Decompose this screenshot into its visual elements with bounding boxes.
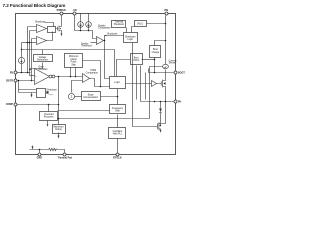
svg-text:Boot: Boot: [153, 48, 158, 51]
wire boot UVLO rail A: [136, 66, 138, 100]
svg-text:Logic: Logic: [127, 39, 133, 41]
svg-text:Shutdown: Shutdown: [46, 88, 57, 91]
wire boot UVLO right to boot riser: [142, 59, 155, 61]
svg-text:Skip: Skip: [71, 65, 76, 67]
svg-text:COMP: COMP: [6, 103, 14, 106]
wire UVLO to VIN rail: [147, 23, 166, 25]
ground arrow below Q4: [160, 130, 162, 133]
comparator U2 (VSENSE OV): [37, 37, 47, 45]
voltage reference box: [34, 55, 53, 62]
driver triangle U6: [152, 81, 157, 87]
wire logic output to driver: [126, 83, 152, 85]
logic box: [110, 77, 126, 89]
svg-text:Oscillator: Oscillator: [113, 130, 123, 133]
diode D1: [159, 102, 162, 122]
svg-text:7.2 Functional Block Diagram: 7.2 Functional Block Diagram: [3, 3, 66, 8]
wire min clamp stubs down: [71, 68, 76, 77]
wire PWRGD drain riser: [61, 15, 63, 26]
current source Ip: [78, 22, 84, 28]
boot charge box: [150, 46, 161, 58]
wire FB to comparators junctions: [28, 72, 31, 74]
pin EN: [73, 12, 76, 15]
wire EN pin riser: [74, 15, 76, 31]
svg-text:BOOT: BOOT: [178, 72, 185, 75]
wire VR bottom to error amp plus: [30, 63, 43, 69]
svg-text:Minimum: Minimum: [69, 56, 79, 58]
current source Ih: [86, 22, 92, 28]
pin PH: [174, 100, 177, 103]
svg-text:Sense: Sense: [169, 63, 176, 65]
svg-text:SS/TR: SS/TR: [6, 79, 13, 82]
ground arrow below Q1: [61, 33, 63, 36]
wire shutdown net to logic: [105, 36, 124, 79]
pin FB: [14, 71, 17, 74]
maximum clamp box: [53, 125, 66, 134]
svg-text:RT/CLK: RT/CLK: [113, 157, 122, 160]
svg-text:Shutdown: Shutdown: [35, 21, 46, 24]
wire current source tops to VIN rail: [81, 14, 89, 22]
svg-text:With PLL: With PLL: [113, 133, 123, 136]
junction dots right: [100, 59, 167, 103]
wire boot charge riser: [154, 58, 156, 73]
pin RT/CLK: [116, 153, 119, 156]
svg-text:Shift: Shift: [115, 110, 120, 113]
svg-text:Σ: Σ: [71, 94, 73, 98]
enable comparator U4: [97, 37, 104, 45]
transistor Q2 comp clamp: [46, 91, 48, 93]
wire SS bus to error amp minus input: [17, 80, 35, 82]
wire GND net: [30, 146, 65, 153]
svg-text:EN: EN: [73, 9, 77, 12]
svg-text:Clamp: Clamp: [55, 129, 62, 131]
wire shutdown stub into pwrgd logic box: [45, 23, 54, 27]
transistor Q4 PH pulldown: [158, 122, 161, 131]
wire BOOT net: [149, 69, 174, 73]
wire U2 output to pwrgd logic: [47, 32, 53, 41]
svg-text:Overload: Overload: [44, 113, 54, 116]
svg-text:Boot: Boot: [134, 56, 139, 59]
svg-text:Logic: Logic: [114, 82, 120, 84]
comparator U1 (VSENSE UV): [37, 25, 47, 33]
pin VIN: [165, 12, 168, 15]
svg-text:Charge: Charge: [152, 51, 160, 54]
wire oscillator to RT/CLK pin: [117, 139, 119, 153]
wire U2 lower input from SS riser: [22, 42, 37, 44]
PWM comparator U5: [83, 74, 90, 83]
transistor Q1 PWRGD open drain: [56, 26, 62, 34]
wire comparator input rail x27.3: [28, 27, 37, 73]
wire comp riser to maximum clamp branch: [59, 67, 163, 119]
svg-text:VIN: VIN: [164, 9, 168, 12]
UVLO box: [135, 21, 147, 27]
arrowhead shutdown wire: [104, 35, 106, 36]
minimum clamp pulse skip box: [65, 54, 83, 68]
wire FB bus: [17, 72, 28, 74]
svg-text:Comparator: Comparator: [86, 72, 99, 75]
pin GND: [38, 153, 41, 156]
transistor Q3 high side FET: [157, 80, 166, 102]
svg-text:Recovery: Recovery: [44, 116, 55, 119]
slope compensation box: [82, 92, 101, 101]
wire overload recovery top to comp bus: [48, 105, 50, 112]
wire enable comparator output: [104, 40, 105, 42]
wire PH net horizontal: [141, 101, 174, 103]
wire boot UVLO left stub: [117, 60, 131, 77]
wire error amp output bus: [55, 76, 83, 78]
wire VR top to supply rail: [42, 50, 44, 55]
gm output circles: [49, 75, 52, 78]
svg-text:UVLO: UVLO: [137, 23, 144, 25]
thermal shutdown box: [112, 21, 126, 28]
wire VIN to boot charge: [155, 41, 166, 46]
junction dots top section: [80, 23, 167, 42]
wire shutdown logic rail to PH: [133, 43, 158, 127]
svg-text:Thermal Pad: Thermal Pad: [58, 157, 73, 160]
wire SS riser x21.1: [21, 43, 23, 73]
resistor R1 GND to thermal pad: [49, 148, 57, 150]
wire VIN rail: [166, 15, 167, 80]
svg-text:Frequency: Frequency: [112, 107, 124, 110]
wire summer to slope comp: [75, 96, 82, 98]
oscillator with PLL box: [109, 128, 126, 139]
wire thermal shutdown to shutdown logic: [126, 28, 128, 33]
boot UVLO box: [131, 54, 143, 65]
pin SS/TR: [14, 79, 17, 82]
wire maximum clamp bottom stub: [58, 133, 60, 137]
junction dot GND riser: [39, 149, 41, 151]
wire boot UVLO rail B: [140, 66, 142, 102]
svg-text:PWRGD: PWRGD: [57, 9, 66, 12]
wire PH to Q4 drain side: [161, 102, 166, 124]
shutdown box near error amp: [37, 89, 46, 98]
wire UVLO to shutdown logic: [132, 27, 135, 33]
pwrgd logic box: [48, 27, 56, 33]
wire comparator input rail x29.9: [30, 31, 37, 76]
wire freq shift to oscillator: [117, 115, 119, 128]
svg-text:Amplifier: Amplifier: [39, 68, 48, 71]
arrow below overload recovery: [47, 121, 49, 125]
wire COMP bus: [17, 104, 59, 106]
svg-text:PH: PH: [178, 101, 182, 104]
svg-text:Shutdown: Shutdown: [114, 23, 125, 26]
svg-text:GND: GND: [37, 157, 43, 160]
svg-text:UVLO: UVLO: [133, 60, 140, 62]
svg-text:Shutdown: Shutdown: [107, 32, 118, 35]
summer sigma circle: [68, 93, 74, 99]
shutdown logic box: [124, 33, 138, 43]
wire error amp plus input: [30, 75, 35, 77]
svg-text:Pulse: Pulse: [71, 62, 78, 64]
wire current source bottoms: [81, 28, 89, 31]
pin COMP: [14, 103, 17, 106]
pin Thermal Pad: [63, 153, 66, 156]
wire shutdown ground riser x31.9: [19, 81, 37, 95]
wire COMP riser x58.4: [58, 77, 60, 125]
current source I-SS: [18, 57, 24, 63]
wire overload recovery to frequency shift: [58, 110, 110, 112]
current sense sensor circle: [163, 64, 169, 68]
wire slope comp right: [101, 96, 118, 98]
error amplifier U3: [35, 69, 50, 85]
wire pwm comp lower input from summer: [72, 81, 83, 93]
frequency shift box: [110, 105, 126, 114]
svg-text:Clamp: Clamp: [70, 59, 77, 61]
wire EN bus to comparator: [75, 31, 97, 39]
wire logic to freq shift riser: [117, 89, 119, 105]
junction dots left section: [18, 42, 60, 106]
svg-text:Compensation: Compensation: [83, 96, 99, 99]
chip boundary: [16, 14, 176, 155]
svg-text:FB: FB: [10, 72, 13, 75]
svg-text:Reference: Reference: [37, 58, 48, 61]
pin BOOT: [174, 71, 177, 74]
svg-text:Threshold: Threshold: [81, 45, 92, 48]
wire comparator input rail x31.3: [32, 39, 37, 81]
junction dots center: [48, 76, 119, 120]
wire enable threshold stub: [91, 42, 97, 44]
wire min clamp right output: [83, 61, 101, 87]
overload recovery box: [40, 112, 58, 121]
svg-text:Comparator: Comparator: [98, 27, 111, 30]
wire pwm output to logic: [90, 79, 110, 87]
wire internal supply rail y49.5: [22, 50, 115, 77]
wire logic gate branch: [145, 73, 147, 100]
pin PWRGD: [60, 12, 63, 15]
